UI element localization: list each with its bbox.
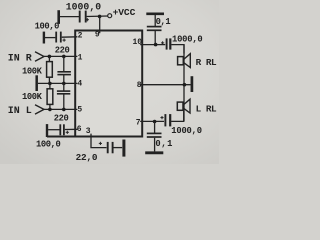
svg-text:R RL: R RL — [196, 57, 217, 68]
wire through speakers — [183, 45, 185, 122]
node L input junction 2 — [62, 108, 66, 112]
ground bar bottom-right — [145, 151, 163, 154]
pin 9 label — [95, 30, 100, 39]
wire ground rail to IC corner — [47, 136, 76, 138]
svg-text:+VCC: +VCC — [113, 7, 136, 18]
svg-text:3: 3 — [86, 127, 91, 136]
svg-text:1000,0: 1000,0 — [171, 126, 201, 136]
svg-text:100K: 100K — [22, 67, 43, 77]
wire — [171, 111, 184, 121]
svg-text:0,1: 0,1 — [156, 17, 171, 27]
label 1000,0 top — [66, 1, 101, 12]
pin 7 label — [136, 119, 141, 128]
wire pin 3 — [91, 134, 107, 148]
svg-text:L RL: L RL — [196, 103, 217, 114]
label R RL — [196, 57, 217, 68]
capacitor C7 220 (L) — [57, 83, 70, 109]
label 220 top — [55, 45, 70, 55]
capacitor C10 22,0 — [107, 142, 109, 153]
svg-text:100,0: 100,0 — [35, 21, 60, 31]
wire pin 6 — [65, 128, 78, 130]
svg-text:8: 8 — [137, 81, 142, 90]
svg-text:7: 7 — [136, 119, 141, 128]
wire — [154, 15, 156, 26]
svg-text:10: 10 — [133, 38, 143, 47]
svg-text:2: 2 — [78, 32, 83, 41]
wire C8 — [154, 122, 156, 133]
svg-text:0,1: 0,1 — [155, 139, 173, 149]
wire — [48, 129, 59, 131]
wire — [45, 37, 55, 39]
wire — [60, 16, 79, 18]
plus mark C5 — [63, 39, 66, 42]
label L RL — [196, 103, 217, 114]
label +VCC — [113, 7, 136, 18]
svg-text:1: 1 — [78, 54, 83, 63]
wire — [87, 15, 108, 18]
pin 2 label — [78, 32, 83, 41]
pin 4 label — [77, 80, 82, 89]
wire — [114, 147, 123, 149]
plus mark C1 — [86, 18, 89, 21]
node pin7/C8 junction — [153, 120, 157, 124]
node VCC junction — [98, 15, 102, 19]
svg-text:220: 220 — [55, 45, 70, 55]
wire — [154, 31, 156, 45]
ground bar mid-left — [35, 75, 38, 91]
pin 8 label — [137, 81, 142, 90]
wire pin 9 — [99, 16, 101, 33]
speaker LS1 (R) — [178, 54, 191, 68]
svg-text:22,0: 22,0 — [76, 152, 98, 163]
capacitor C1 1000,0 (supply) — [79, 11, 81, 23]
capacitor C3 1000,0 (R output) — [166, 38, 168, 49]
wire pin 8 — [140, 84, 190, 86]
terminal circle +VCC — [108, 14, 112, 18]
svg-text:4: 4 — [77, 80, 82, 89]
label 0,1 top — [156, 17, 171, 27]
svg-text:5: 5 — [77, 106, 82, 115]
ground bar top-left — [57, 10, 60, 24]
wire pin 1 — [44, 55, 77, 57]
pin 6 label — [77, 125, 82, 134]
svg-text:IN R: IN R — [8, 53, 32, 64]
node mid junction 1 — [48, 82, 52, 86]
capacitor C9 100,0 (pin6) — [59, 124, 61, 135]
label 220 bottom — [54, 114, 69, 124]
capacitor C6 220 (R) — [57, 56, 71, 83]
speaker LS2 (L) — [177, 99, 190, 113]
label 1000,0 bottom-right — [171, 126, 201, 136]
wire pin 10 — [140, 44, 165, 46]
label 100K top — [22, 67, 43, 77]
node L input junction 1 — [48, 108, 52, 112]
plus mark C3 — [161, 41, 164, 44]
plus mark C4 — [160, 116, 163, 119]
wire — [171, 45, 184, 54]
pin 5 label — [77, 106, 82, 115]
label IN L — [8, 106, 32, 117]
IC U1 — [75, 31, 142, 137]
svg-text:100,0: 100,0 — [36, 140, 61, 150]
wire pin 4 — [38, 82, 78, 84]
label 22,0 — [76, 152, 98, 163]
capacitor C8 0,1 (bottom) — [147, 132, 162, 134]
capacitor C5 100,0 (pin2) — [55, 32, 57, 43]
plus mark C9 — [66, 131, 69, 134]
svg-text:100K: 100K — [22, 92, 43, 102]
pin 10 label — [133, 38, 143, 47]
svg-text:220: 220 — [54, 114, 69, 124]
plus mark C10 — [99, 142, 102, 145]
input connector L chevron — [35, 105, 44, 114]
label 0,1 bottom — [155, 139, 173, 149]
wire — [154, 138, 156, 152]
node R input junction 1 — [48, 55, 52, 59]
resistor R1 100K — [47, 56, 53, 83]
svg-text:6: 6 — [77, 125, 82, 134]
resistor R2 100K — [47, 83, 53, 109]
wire pin 5 — [44, 108, 77, 110]
wire pin 7 — [140, 120, 164, 122]
capacitor C4 1000,0 (L output) — [164, 114, 166, 126]
label 100K bottom — [22, 92, 43, 102]
pin 1 label — [78, 54, 83, 63]
ground bar left (pin2 cap) — [43, 32, 45, 44]
wire pin 2 — [62, 36, 78, 38]
svg-text:1000,0: 1000,0 — [66, 1, 101, 12]
node speaker return junction — [183, 83, 187, 87]
capacitor C2 0,1 (top) — [147, 26, 162, 28]
label 100,0 top-left — [35, 21, 60, 31]
ground bar bottom-left — [46, 124, 48, 137]
node R input junction 2 — [62, 55, 66, 59]
node mid junction 2 — [62, 82, 66, 86]
ground bar right — [191, 76, 194, 92]
ground bar bottom-mid — [122, 140, 125, 157]
pin 3 label — [86, 127, 91, 136]
label IN R — [8, 53, 32, 64]
ground bar top-right — [146, 13, 164, 16]
svg-text:1000,0: 1000,0 — [172, 35, 202, 45]
svg-text:IN L: IN L — [8, 106, 32, 117]
input connector R chevron — [35, 52, 44, 61]
label 1000,0 right — [172, 35, 202, 45]
node pin10/C2 junction — [154, 43, 158, 47]
label 100,0 bottom — [36, 140, 61, 150]
